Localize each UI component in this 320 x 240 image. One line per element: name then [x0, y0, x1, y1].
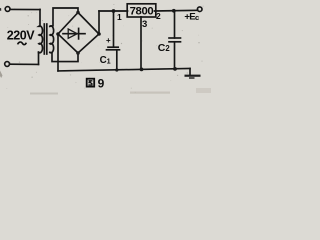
terminal T2 (AC input bottom)	[5, 62, 10, 67]
paper speckle	[6, 4, 203, 93]
node bottom vertex	[76, 51, 80, 55]
wire C1 bottom	[116, 50, 118, 70]
svg-text:+: +	[106, 36, 111, 45]
wire C1 top	[113, 11, 115, 47]
node C2-rail	[173, 67, 177, 71]
svg-text:C1: C1	[100, 55, 111, 66]
wire pin 3 to ground rail	[140, 17, 142, 70]
bridge diode triangle	[68, 29, 77, 38]
capacitor C1 plates	[108, 46, 118, 48]
wire pin 2 to output	[155, 9, 198, 12]
transformer B1 secondary winding	[50, 26, 54, 53]
node left vertex	[56, 32, 60, 36]
terminal T1 (AC input top)	[5, 7, 10, 12]
label ~	[18, 42, 27, 45]
svg-text:220V: 220V	[7, 29, 36, 43]
capacitor C2 plates	[169, 37, 181, 39]
wire up to primary bottom	[38, 52, 40, 64]
wire secondary top to bridge top	[50, 8, 78, 26]
caption 图 9	[87, 79, 95, 87]
node C1 tap	[112, 9, 116, 13]
wire right vertex up	[98, 11, 100, 34]
op-amp U1 7800 regulator box	[127, 4, 156, 17]
svg-text:2: 2	[156, 11, 161, 21]
wire bottom-left horizontal	[10, 63, 39, 65]
node top vertex	[76, 11, 80, 15]
node C2 tap	[172, 9, 176, 13]
svg-text:3: 3	[142, 19, 147, 30]
node right vertex	[97, 32, 101, 36]
svg-text:9: 9	[98, 76, 105, 90]
wire top-left horizontal	[10, 8, 40, 10]
svg-text:7800: 7800	[130, 6, 154, 18]
svg-text:C2: C2	[158, 42, 171, 54]
paper noise marks	[0, 8, 1, 11]
wire left vertex down to ground rail	[57, 34, 59, 71]
svg-text:1: 1	[117, 12, 122, 22]
bridge rectifier diamond	[58, 13, 99, 54]
transformer core	[43, 24, 45, 54]
wire C2 top	[174, 11, 176, 38]
bridge diode cathode bar	[78, 28, 80, 39]
node C1-rail	[115, 68, 118, 71]
ground rail	[58, 69, 190, 71]
wire secondary bottom to bridge bottom	[50, 52, 78, 61]
wire C2 bottom	[174, 42, 176, 69]
wire bridge to regulator pin 1	[99, 10, 128, 12]
terminal output +Ec	[197, 7, 202, 12]
transformer B1 primary winding	[39, 10, 43, 53]
svg-text:+Ec: +Ec	[184, 12, 199, 23]
ground	[189, 69, 191, 75]
node pin3-rail	[140, 68, 144, 72]
bridge diode lead	[63, 33, 85, 35]
